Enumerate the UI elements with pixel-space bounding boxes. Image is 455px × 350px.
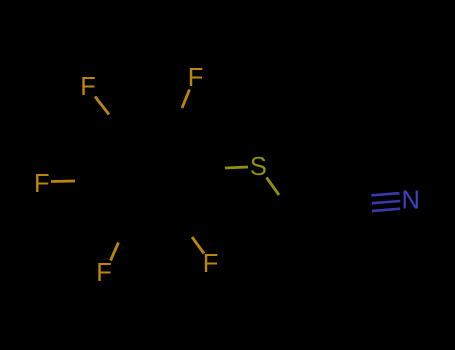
- bond C1-F1: [95, 97, 109, 115]
- bond C2-F2: [182, 90, 190, 109]
- svg-text:F: F: [96, 259, 112, 287]
- triple bond line 2 (C#N middle): [372, 201, 400, 203]
- bond C6-S: [225, 167, 248, 168]
- bond C4-F4: [111, 243, 119, 261]
- bond C5-F5: [192, 237, 204, 254]
- bond S-CH2: [267, 178, 280, 196]
- svg-text:F: F: [34, 170, 50, 198]
- svg-text:S: S: [250, 153, 267, 181]
- svg-text:F: F: [188, 64, 204, 92]
- svg-text:F: F: [203, 250, 219, 278]
- triple bond line 3 (C#N bottom): [372, 209, 400, 211]
- triple bond line 1 (C#N top): [372, 193, 400, 195]
- bond C3-F3: [51, 180, 75, 183]
- svg-text:N: N: [401, 187, 419, 215]
- svg-text:F: F: [80, 73, 96, 101]
